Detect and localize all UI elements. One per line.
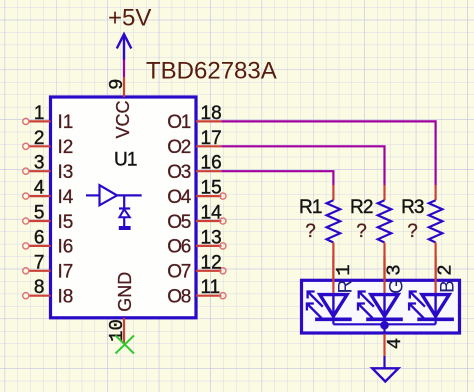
svg-text:2: 2 (34, 128, 45, 149)
svg-text:?: ? (407, 221, 418, 242)
svg-text:GND: GND (115, 272, 135, 312)
ground stem wire (383, 356, 385, 368)
svg-text:VCC: VCC (113, 100, 133, 138)
pin 11 O8 (167, 277, 226, 307)
IC internal diode symbol (119, 209, 131, 229)
svg-text:3: 3 (34, 153, 45, 174)
svg-text:O5: O5 (167, 212, 190, 233)
svg-text:8: 8 (34, 277, 45, 298)
pin 13 O6 (167, 227, 226, 257)
svg-text:O8: O8 (167, 287, 190, 308)
pin 8 I8 (23, 277, 74, 307)
ground symbol (372, 368, 398, 381)
svg-text:O7: O7 (167, 262, 190, 283)
svg-text:6: 6 (34, 227, 45, 248)
pin 9 VCC (106, 77, 133, 139)
svg-text:O6: O6 (167, 237, 190, 258)
svg-text:R2: R2 (350, 197, 373, 218)
svg-text:R3: R3 (401, 197, 424, 218)
svg-text:5: 5 (34, 203, 45, 224)
pin 14 O5 (167, 203, 226, 233)
svg-text:?: ? (305, 221, 316, 242)
wire O1 pin18 to R3 (221, 121, 435, 185)
svg-text:I2: I2 (58, 137, 74, 158)
svg-text:3: 3 (384, 264, 406, 275)
svg-text:11: 11 (201, 277, 221, 298)
pin 18 O1 (167, 103, 221, 133)
svg-text:12: 12 (201, 252, 222, 273)
svg-text:10: 10 (106, 319, 128, 342)
svg-text:O1: O1 (167, 112, 190, 133)
pin 10 GND (106, 272, 135, 344)
svg-text:I3: I3 (58, 162, 74, 183)
resistor R1 (299, 185, 340, 280)
svg-text:15: 15 (201, 178, 222, 199)
svg-text:O2: O2 (167, 137, 190, 158)
LED B emission arrows (409, 292, 425, 319)
svg-text:TBD62783A: TBD62783A (146, 58, 277, 85)
LED R pin 1 (333, 255, 356, 294)
LED G pin 3 (384, 255, 408, 294)
svg-text:G: G (386, 279, 407, 294)
resistor R2 (350, 185, 391, 280)
common cathode bus wire (333, 323, 435, 325)
svg-text:B: B (438, 280, 459, 293)
IC internal buffer symbol (86, 185, 142, 208)
svg-text:R1: R1 (299, 197, 322, 218)
svg-text:9: 9 (106, 78, 128, 89)
svg-text:I8: I8 (58, 287, 74, 308)
LED G emission arrows (358, 292, 374, 319)
pin 17 O2 (167, 128, 221, 158)
svg-text:18: 18 (201, 103, 222, 124)
svg-text:I4: I4 (58, 187, 74, 208)
pin 16 O3 (167, 153, 221, 183)
svg-text:O3: O3 (167, 162, 190, 183)
pin 12 O7 (167, 252, 226, 282)
svg-text:4: 4 (34, 178, 45, 199)
svg-text:U1: U1 (114, 150, 137, 171)
IC U1 body (51, 97, 197, 318)
pin 15 O4 (167, 178, 226, 208)
wire VCC to +5V (123, 60, 125, 78)
svg-text:1: 1 (333, 264, 355, 275)
wire O2 pin17 to R2 (221, 146, 384, 185)
svg-text:13: 13 (201, 227, 222, 248)
svg-text:R: R (335, 280, 356, 294)
svg-text:I5: I5 (58, 212, 74, 233)
svg-text:I7: I7 (58, 262, 74, 283)
LED B diode (417, 294, 454, 324)
pin 3 I3 (23, 153, 74, 183)
pin 6 I6 (23, 227, 74, 257)
svg-text:2: 2 (435, 264, 457, 275)
svg-text:7: 7 (34, 252, 45, 273)
pin 5 I5 (23, 203, 74, 233)
junction dot (380, 321, 389, 330)
pin 1 I1 (23, 103, 74, 133)
pin 4 I4 (23, 178, 74, 208)
pin 7 I7 (23, 252, 74, 282)
svg-text:I6: I6 (58, 237, 74, 258)
svg-text:+5V: +5V (108, 5, 151, 32)
no-ERC marker X on pin 10 (116, 336, 135, 354)
svg-text:17: 17 (201, 128, 222, 149)
svg-text:?: ? (356, 221, 367, 242)
LED package body (302, 280, 460, 333)
svg-text:16: 16 (201, 153, 222, 174)
pin 2 I2 (23, 128, 74, 158)
LED pin 4 common (384, 325, 406, 356)
LED R emission arrows (307, 292, 323, 319)
LED G diode (366, 294, 403, 324)
LED B pin 2 (435, 255, 459, 294)
svg-text:1: 1 (34, 103, 45, 124)
resistor R3 (401, 185, 442, 280)
power port +5V arrow symbol (117, 34, 132, 60)
svg-text:14: 14 (201, 203, 223, 224)
LED R diode (315, 294, 352, 324)
wire O3 pin16 to R1 (221, 171, 333, 185)
svg-text:I1: I1 (58, 112, 74, 133)
svg-text:O4: O4 (167, 187, 191, 208)
svg-text:4: 4 (384, 338, 406, 349)
